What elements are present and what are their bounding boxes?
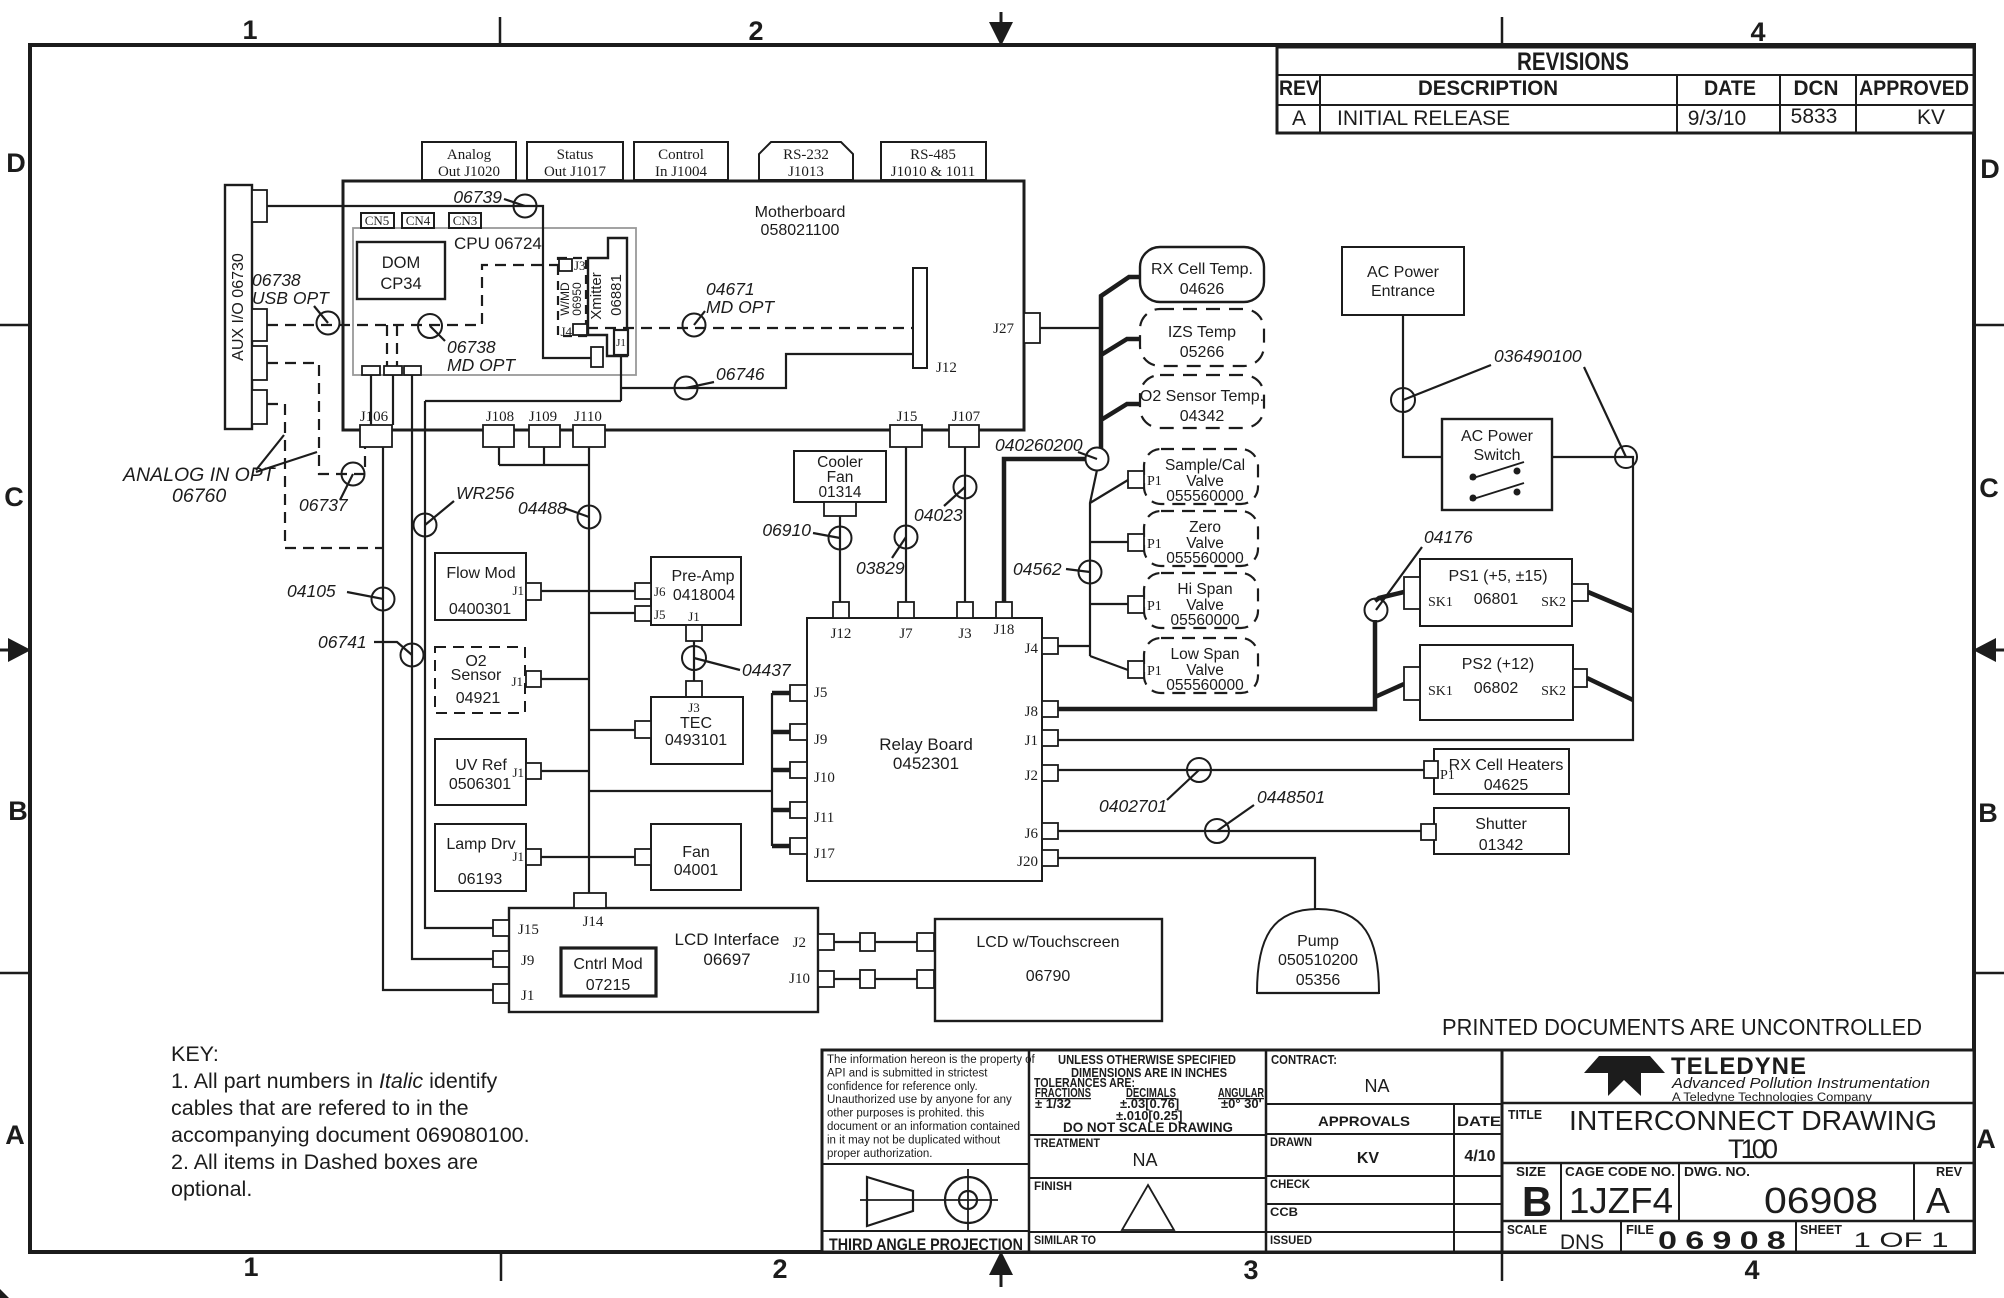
svg-text:J1010 & 1011: J1010 & 1011 bbox=[891, 164, 975, 180]
svg-text:J10: J10 bbox=[814, 770, 835, 786]
svg-text:PS2 (+12): PS2 (+12) bbox=[1462, 656, 1534, 673]
bottom center arrow bbox=[989, 1251, 1013, 1287]
Xmitter 06881 module bbox=[588, 238, 627, 356]
svg-text:Xmitter: Xmitter bbox=[588, 272, 605, 320]
cable marker 04562 bbox=[1013, 559, 1102, 584]
svg-text:LCD w/Touchscreen: LCD w/Touchscreen bbox=[976, 934, 1119, 951]
valve feed bus bbox=[1090, 470, 1128, 670]
svg-text:055560000: 055560000 bbox=[1166, 550, 1244, 567]
svg-text:2: 2 bbox=[748, 16, 763, 46]
svg-text:Advanced Pollution Instrumenta: Advanced Pollution Instrumentation bbox=[1671, 1076, 1930, 1092]
svg-text:4: 4 bbox=[1750, 17, 1765, 47]
svg-text:± 1/32: ± 1/32 bbox=[1035, 1096, 1071, 1111]
connector CN4 bbox=[402, 213, 434, 228]
wire Lamp Drv to Fan bbox=[541, 856, 635, 858]
svg-text:04626: 04626 bbox=[1180, 281, 1225, 298]
svg-text:J10: J10 bbox=[789, 971, 810, 987]
cable marker 06746 bbox=[675, 364, 765, 400]
top center arrow bbox=[989, 12, 1013, 46]
approvals header row bbox=[1266, 1104, 1502, 1252]
svg-text:Sensor: Sensor bbox=[451, 667, 502, 684]
svg-text:DATE: DATE bbox=[1457, 1113, 1501, 1129]
wire bus to relay left bus bbox=[589, 790, 772, 792]
cable marker 04671 MD OPT bbox=[683, 279, 776, 337]
svg-text:C: C bbox=[1979, 473, 1999, 503]
wire AC entrance to switch bbox=[1403, 315, 1442, 457]
svg-text:01314: 01314 bbox=[818, 484, 861, 501]
svg-text:CAGE CODE NO.: CAGE CODE NO. bbox=[1565, 1165, 1675, 1179]
revisions table grid bbox=[1277, 47, 1974, 133]
connector RS-232 J1013 bbox=[759, 142, 853, 180]
svg-text:TREATMENT: TREATMENT bbox=[1034, 1136, 1101, 1150]
Pump module bbox=[1257, 909, 1379, 993]
svg-text:THIRD ANGLE PROJECTION: THIRD ANGLE PROJECTION bbox=[829, 1236, 1023, 1254]
projection cone symbol bbox=[860, 1177, 930, 1226]
O2 Sensor J1 tab bbox=[526, 671, 541, 687]
svg-text:B: B bbox=[1978, 798, 1998, 828]
svg-text:J11: J11 bbox=[814, 810, 834, 826]
svg-text:MD OPT: MD OPT bbox=[706, 297, 775, 317]
svg-text:J17: J17 bbox=[814, 846, 835, 862]
left zone tick B/A bbox=[0, 972, 30, 975]
svg-text:CP34: CP34 bbox=[380, 275, 421, 293]
cable marker 06738 MD OPT bbox=[418, 314, 516, 375]
motherboard connector J106 bbox=[360, 409, 392, 447]
Shutter module bbox=[1421, 808, 1569, 854]
svg-text:WR256: WR256 bbox=[456, 483, 515, 503]
svg-text:CONTRACT:: CONTRACT: bbox=[1271, 1053, 1337, 1067]
cable marker 04105 bbox=[287, 581, 395, 611]
label ANALOG IN OPT 06760 bbox=[122, 435, 317, 507]
CPU bottom connector 3 bbox=[404, 366, 421, 375]
svg-text:J15: J15 bbox=[897, 409, 918, 425]
svg-text:2. All items in Dashed boxes a: 2. All items in Dashed boxes are bbox=[171, 1150, 478, 1174]
svg-text:DNS: DNS bbox=[1560, 1231, 1604, 1254]
DOM CP34 module bbox=[357, 242, 445, 299]
PS1 SK2 tab bbox=[1572, 584, 1588, 601]
relay J5 tab bbox=[772, 685, 827, 701]
thick wire PS2 SK2 to AC line bbox=[1587, 678, 1633, 700]
svg-text:J108: J108 bbox=[486, 409, 514, 425]
Pre-Amp J1 bottom tab bbox=[686, 625, 702, 641]
scale label and value bbox=[1507, 1223, 1604, 1254]
issued row bbox=[1266, 1232, 1502, 1247]
treatment row bbox=[1029, 1135, 1266, 1170]
Zero valve bbox=[1128, 511, 1258, 567]
svg-text:KV: KV bbox=[1917, 106, 1945, 129]
size row line bbox=[1502, 1163, 1974, 1221]
svg-text:UNLESS OTHERWISE SPECIFIED: UNLESS OTHERWISE SPECIFIED bbox=[1058, 1053, 1236, 1067]
svg-text:MD OPT: MD OPT bbox=[447, 355, 516, 375]
svg-text:REVISIONS: REVISIONS bbox=[1517, 48, 1629, 76]
svg-text:B: B bbox=[1522, 1178, 1552, 1225]
svg-text:DATE: DATE bbox=[1704, 77, 1756, 100]
thick wire relay J18 to valve/temp bus bbox=[1004, 459, 1086, 602]
wire CPU conn1 to J106 bbox=[370, 375, 372, 425]
svg-text:06790: 06790 bbox=[1026, 968, 1071, 985]
wire AC switch to distribution bbox=[1058, 457, 1633, 740]
svg-text:D: D bbox=[6, 148, 26, 178]
svg-text:B: B bbox=[8, 796, 28, 826]
svg-text:040260200: 040260200 bbox=[995, 435, 1083, 455]
svg-text:accompanying document 06908010: accompanying document 069080100. bbox=[171, 1123, 530, 1147]
Pre-Amp J5 tab bbox=[635, 606, 651, 621]
wire main bus J110 down to J14 bbox=[588, 447, 590, 893]
corner mark bottom-left bbox=[0, 1289, 9, 1298]
svg-text:DOM: DOM bbox=[382, 254, 421, 272]
svg-text:03829: 03829 bbox=[856, 558, 905, 578]
svg-text:TEC: TEC bbox=[680, 715, 712, 732]
svg-text:04437: 04437 bbox=[742, 660, 792, 680]
svg-text:1: 1 bbox=[243, 1252, 258, 1282]
svg-text:APPROVED: APPROVED bbox=[1859, 77, 1969, 100]
rev label and value bbox=[1926, 1165, 1963, 1221]
svg-text:J8: J8 bbox=[1025, 704, 1038, 720]
wire relay J6 to shutter bbox=[1058, 830, 1421, 832]
svg-text:REV: REV bbox=[1279, 77, 1319, 100]
svg-text:04488: 04488 bbox=[518, 498, 567, 518]
svg-text:D: D bbox=[1980, 154, 2000, 184]
svg-text:REV: REV bbox=[1936, 1165, 1963, 1179]
cable marker 0448501 bbox=[1205, 787, 1325, 843]
svg-text:05356: 05356 bbox=[1296, 972, 1341, 989]
relay left bus bbox=[771, 693, 773, 846]
svg-text:04176: 04176 bbox=[1424, 527, 1473, 547]
svg-text:UV Ref: UV Ref bbox=[455, 757, 507, 774]
svg-text:06760: 06760 bbox=[172, 485, 226, 507]
svg-text:J6: J6 bbox=[1025, 826, 1039, 842]
svg-text:SK2: SK2 bbox=[1541, 595, 1566, 610]
right center arrow bbox=[1973, 638, 2004, 662]
svg-text:04001: 04001 bbox=[674, 862, 719, 879]
CPU bottom connector 1 bbox=[362, 366, 380, 375]
svg-text:RS-232: RS-232 bbox=[783, 147, 829, 163]
PS2 power supply bbox=[1420, 645, 1573, 720]
O2 Sensor Temp optional module bbox=[1140, 375, 1264, 428]
relay J1 right tab bbox=[1025, 730, 1058, 749]
relay J4 right tab bbox=[1025, 638, 1058, 657]
RX Cell Heaters module bbox=[1424, 749, 1569, 794]
title block outer frame bbox=[822, 1050, 1974, 1252]
O2 Sensor optional module bbox=[435, 647, 525, 713]
svg-text:P1: P1 bbox=[1440, 768, 1455, 783]
svg-text:A: A bbox=[1976, 1124, 1996, 1154]
svg-text:SIZE: SIZE bbox=[1516, 1165, 1546, 1179]
relay board outline bbox=[807, 618, 1042, 881]
svg-text:1 OF 1: 1 OF 1 bbox=[1854, 1229, 1949, 1252]
AUX I/O 06730 connector body bbox=[225, 185, 252, 429]
svg-text:DESCRIPTION: DESCRIPTION bbox=[1418, 77, 1558, 100]
svg-text:J12: J12 bbox=[936, 360, 957, 376]
connector Analog Out J1020 bbox=[422, 142, 516, 180]
Fan left tab bbox=[635, 849, 651, 865]
svg-text:J27: J27 bbox=[993, 321, 1014, 337]
svg-text:04625: 04625 bbox=[1484, 777, 1529, 794]
svg-text:P1: P1 bbox=[1147, 664, 1162, 679]
svg-text:API and is submitted in strict: API and is submitted in strictest bbox=[827, 1067, 988, 1079]
Fan module bbox=[651, 824, 741, 890]
teledyne logo mark bbox=[1584, 1056, 1665, 1096]
wire Pre-Amp J5 to bus bbox=[589, 612, 635, 614]
connector CN3 bbox=[449, 213, 481, 228]
relay J8 right tab bbox=[1025, 701, 1058, 720]
svg-text:Zero: Zero bbox=[1189, 519, 1221, 536]
svg-text:06739: 06739 bbox=[453, 187, 502, 207]
svg-text:AC Power: AC Power bbox=[1367, 264, 1440, 281]
wire Pre-Amp J1 to TEC J3 bbox=[693, 641, 695, 681]
svg-text:CPU 06724: CPU 06724 bbox=[454, 234, 542, 253]
svg-text:P1: P1 bbox=[1147, 599, 1162, 614]
svg-text:J14: J14 bbox=[583, 914, 604, 930]
svg-text:PS1 (+5, ±15): PS1 (+5, ±15) bbox=[1448, 568, 1547, 585]
svg-text:SK2: SK2 bbox=[1541, 684, 1566, 699]
Lamp Drv module bbox=[435, 824, 526, 891]
cable marker 06737 bbox=[299, 463, 365, 516]
right zone tick B/A bbox=[1974, 972, 2004, 975]
svg-text:J20: J20 bbox=[1017, 854, 1038, 870]
wire relay J7 to MB J15 bbox=[905, 447, 907, 602]
svg-text:The information hereon is the: The information hereon is the property o… bbox=[827, 1054, 1036, 1066]
AUX tab 1 bbox=[252, 190, 267, 222]
svg-text:Fan: Fan bbox=[682, 844, 710, 861]
svg-text:06881: 06881 bbox=[608, 274, 625, 316]
svg-text:06908: 06908 bbox=[1764, 1180, 1878, 1221]
svg-text:055560000: 055560000 bbox=[1166, 677, 1244, 694]
svg-text:Sample/Cal: Sample/Cal bbox=[1165, 457, 1245, 474]
AUX tab 3 bbox=[252, 346, 267, 380]
svg-text:05560000: 05560000 bbox=[1171, 612, 1240, 629]
PS2 SK1 tab bbox=[1404, 667, 1420, 700]
cable marker 06739 bbox=[453, 187, 536, 218]
svg-text:RX Cell Heaters: RX Cell Heaters bbox=[1449, 757, 1564, 774]
bottom zone tick 1/2 bbox=[500, 1252, 503, 1281]
svg-text:ANALOG IN OPT: ANALOG IN OPT bbox=[122, 464, 277, 486]
cable marker 036490100 switch side bbox=[1584, 367, 1637, 468]
svg-text:J2: J2 bbox=[1025, 768, 1038, 784]
AC Power Entrance module bbox=[1342, 247, 1464, 315]
AUX tab 2 bbox=[252, 309, 267, 341]
CPU board outline bbox=[353, 228, 636, 375]
svg-text:KEY:: KEY: bbox=[171, 1042, 219, 1066]
svg-text:J1: J1 bbox=[511, 674, 523, 689]
svg-text:04023: 04023 bbox=[914, 505, 963, 525]
Flow Mod J1 tab bbox=[526, 583, 541, 600]
svg-text:0506301: 0506301 bbox=[449, 776, 511, 793]
svg-text:4/10: 4/10 bbox=[1464, 1148, 1495, 1165]
svg-text:Entrance: Entrance bbox=[1371, 283, 1435, 300]
svg-text:Shutter: Shutter bbox=[1475, 816, 1527, 833]
wire UV Ref to bus bbox=[541, 770, 589, 772]
wire relay J20 to pump bbox=[1058, 858, 1315, 909]
svg-text:INTERCONNECT DRAWING: INTERCONNECT DRAWING bbox=[1569, 1105, 1937, 1136]
left center arrow bbox=[0, 638, 31, 662]
key note text bbox=[171, 1042, 530, 1201]
svg-text:O2 Sensor Temp.: O2 Sensor Temp. bbox=[1140, 388, 1264, 405]
svg-text:Control: Control bbox=[658, 147, 704, 163]
LCD J14 top tab bbox=[574, 893, 606, 908]
svg-text:DRAWN: DRAWN bbox=[1270, 1135, 1312, 1149]
svg-text:06802: 06802 bbox=[1474, 680, 1519, 697]
wire TEC to bus bbox=[589, 729, 635, 731]
cable marker 04437 bbox=[682, 646, 792, 680]
motherboard connector J107 bbox=[949, 409, 981, 447]
svg-text:Hi Span: Hi Span bbox=[1177, 581, 1232, 598]
svg-text:0400301: 0400301 bbox=[449, 601, 511, 618]
svg-text:J4: J4 bbox=[1025, 641, 1039, 657]
svg-text:optional.: optional. bbox=[171, 1177, 252, 1201]
svg-text:1: 1 bbox=[242, 15, 257, 45]
projection target symbol bbox=[930, 1169, 998, 1231]
connector J4 on W/MD bbox=[560, 324, 587, 339]
svg-text:J15: J15 bbox=[518, 922, 539, 938]
svg-text:NA: NA bbox=[1364, 1076, 1389, 1096]
top zone tick 1/2 bbox=[499, 17, 502, 45]
svg-text:J3: J3 bbox=[688, 700, 700, 715]
motherboard connector J110 bbox=[573, 409, 605, 447]
UV Ref module bbox=[435, 739, 526, 805]
svg-text:cables that are refered to in: cables that are refered to in the bbox=[171, 1096, 469, 1120]
svg-text:9/3/10: 9/3/10 bbox=[1688, 107, 1746, 130]
tolerance cell text bbox=[1034, 1053, 1264, 1135]
svg-text:J3: J3 bbox=[574, 258, 586, 273]
svg-text:in it may not be duplicated wi: in it may not be duplicated without bbox=[827, 1134, 1001, 1146]
svg-text:RX Cell Temp.: RX Cell Temp. bbox=[1151, 261, 1253, 278]
svg-text:J9: J9 bbox=[521, 953, 534, 969]
svg-text:SCALE: SCALE bbox=[1507, 1223, 1547, 1237]
svg-text:±0° 30': ±0° 30' bbox=[1221, 1096, 1262, 1111]
svg-text:AUX I/O 06730: AUX I/O 06730 bbox=[230, 253, 247, 361]
svg-text:Flow Mod: Flow Mod bbox=[446, 565, 515, 582]
wire relay J2 to RX heaters bbox=[1058, 769, 1424, 771]
svg-text:FINISH: FINISH bbox=[1034, 1179, 1072, 1193]
motherboard connector J108 bbox=[483, 409, 514, 447]
proprietary notice text bbox=[827, 1054, 1036, 1160]
svg-text:Status: Status bbox=[557, 147, 594, 163]
svg-text:In J1004: In J1004 bbox=[655, 164, 708, 180]
svg-text:NA: NA bbox=[1132, 1150, 1157, 1170]
svg-text:APPROVALS: APPROVALS bbox=[1318, 1113, 1410, 1129]
svg-text:SK1: SK1 bbox=[1428, 595, 1453, 610]
cable marker WR256 bbox=[414, 483, 515, 537]
relay J18 top tab bbox=[994, 602, 1015, 638]
motherboard connector J109 bbox=[529, 409, 560, 447]
svg-text:Relay Board: Relay Board bbox=[879, 735, 973, 754]
relay board label bbox=[879, 735, 973, 773]
size label and value bbox=[1516, 1165, 1552, 1225]
svg-text:J109: J109 bbox=[529, 409, 557, 425]
teledyne logo text bbox=[1671, 1053, 1930, 1104]
connector Status Out J1017 bbox=[527, 142, 623, 180]
svg-text:ISSUED: ISSUED bbox=[1270, 1233, 1312, 1247]
relay J6 right tab bbox=[1025, 823, 1058, 842]
svg-text:P1: P1 bbox=[1147, 474, 1162, 489]
svg-text:5833: 5833 bbox=[1791, 105, 1838, 128]
svg-text:058021100: 058021100 bbox=[761, 222, 840, 239]
dashed drop to CPU connector a bbox=[386, 325, 388, 366]
svg-text:RS-485: RS-485 bbox=[910, 147, 956, 163]
svg-text:J5: J5 bbox=[654, 607, 666, 622]
svg-text:0418004: 0418004 bbox=[673, 587, 735, 604]
svg-text:05266: 05266 bbox=[1180, 344, 1225, 361]
Pre-Amp module bbox=[651, 557, 741, 625]
svg-text:DWG. NO.: DWG. NO. bbox=[1684, 1165, 1750, 1179]
scale row line bbox=[1502, 1221, 1974, 1252]
bottom zone tick 3/4 bbox=[1501, 1252, 1504, 1281]
connector Control In J1004 bbox=[634, 142, 728, 180]
cable marker 036490100 entrance bbox=[1391, 346, 1582, 412]
svg-text:06910: 06910 bbox=[762, 520, 811, 540]
wire 06739 from MB edge to Xmitter stub bbox=[343, 206, 591, 358]
connector bar J12 internal bbox=[913, 268, 957, 376]
cable marker 03829 bbox=[856, 526, 918, 579]
svg-text:Pre-Amp: Pre-Amp bbox=[671, 568, 734, 585]
W/MD 06950 dashed module bbox=[558, 258, 586, 336]
svg-text:J1: J1 bbox=[512, 849, 524, 864]
svg-text:06193: 06193 bbox=[458, 871, 503, 888]
svg-text:J3: J3 bbox=[958, 626, 971, 642]
LCD J9 tab bbox=[493, 951, 509, 967]
sheet label and value bbox=[1800, 1223, 1949, 1252]
svg-text:J1: J1 bbox=[1025, 733, 1038, 749]
svg-text:SIMILAR TO: SIMILAR TO bbox=[1034, 1233, 1096, 1247]
thick wire relay J8 to PS SK1 bus bbox=[1058, 592, 1404, 709]
svg-text:J106: J106 bbox=[360, 409, 389, 425]
LCD J15 tab bbox=[493, 920, 509, 936]
top zone tick 2/4 bbox=[1501, 17, 1504, 45]
connector RS-485 J1010 & 1011 bbox=[881, 142, 986, 180]
Cooler Fan bottom tab bbox=[824, 502, 856, 516]
relay J3 top tab bbox=[957, 602, 973, 642]
svg-text:SHEET: SHEET bbox=[1800, 1223, 1842, 1237]
svg-text:A: A bbox=[1292, 107, 1306, 130]
LCD J10 tab bbox=[818, 971, 834, 987]
svg-text:Out J1020: Out J1020 bbox=[438, 164, 500, 180]
svg-text:TITLE: TITLE bbox=[1508, 1107, 1542, 1122]
svg-text:KV: KV bbox=[1357, 1150, 1380, 1167]
dashed drop to CPU connector b bbox=[396, 325, 398, 366]
svg-text:Pump: Pump bbox=[1297, 933, 1339, 950]
svg-text:Motherboard: Motherboard bbox=[755, 204, 846, 221]
cage code label and value bbox=[1565, 1165, 1675, 1221]
svg-text:P1: P1 bbox=[1147, 537, 1162, 552]
svg-text:06908: 06908 bbox=[1658, 1227, 1794, 1255]
IZS Temp optional module bbox=[1140, 309, 1264, 366]
svg-text:Low Span: Low Span bbox=[1171, 646, 1240, 663]
Sample/Cal valve bbox=[1128, 449, 1258, 505]
wire CPU conn2 to J106 bbox=[392, 375, 394, 425]
TEC J3 tab bbox=[686, 681, 702, 697]
contract cell bbox=[1271, 1053, 1390, 1096]
svg-text:Analog: Analog bbox=[447, 147, 492, 163]
svg-text:J4: J4 bbox=[560, 324, 572, 339]
wire bus from CPU conn3 down to LCD J9 bbox=[412, 375, 493, 959]
relay J12 top tab bbox=[831, 602, 852, 642]
AC Power Switch module bbox=[1442, 419, 1552, 510]
wire J10 to touchscreen bbox=[834, 970, 934, 988]
relay J9 tab bbox=[772, 724, 827, 748]
svg-text:J1: J1 bbox=[616, 337, 626, 349]
svg-text:J107: J107 bbox=[952, 409, 981, 425]
motherboard outline bbox=[343, 181, 1024, 430]
svg-text:1JZF4: 1JZF4 bbox=[1569, 1180, 1673, 1221]
svg-text:J1: J1 bbox=[512, 583, 524, 598]
similar-to row bbox=[1029, 1232, 1266, 1247]
LCD Interface module bbox=[509, 908, 818, 1012]
drawn row bbox=[1266, 1134, 1502, 1167]
motherboard label bbox=[755, 204, 846, 239]
Cooler Fan module bbox=[794, 451, 886, 502]
cable marker 06738 USB OPT bbox=[252, 270, 340, 335]
